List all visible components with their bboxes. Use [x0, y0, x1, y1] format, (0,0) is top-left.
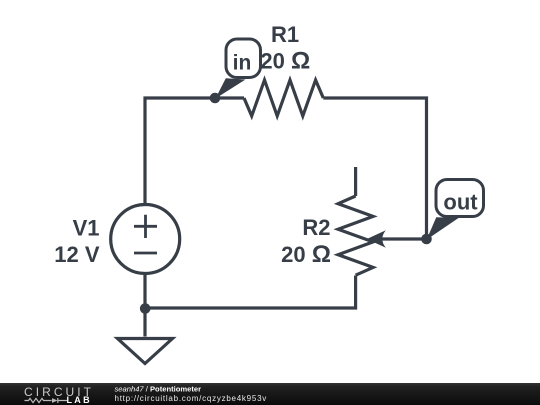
svg-text:http://circuitlab.com/cqzyzbe4: http://circuitlab.com/cqzyzbe4k953v — [115, 394, 268, 403]
svg-text:seanh47 / Potentiometer: seanh47 / Potentiometer — [115, 384, 202, 393]
svg-text:LAB: LAB — [67, 395, 92, 405]
